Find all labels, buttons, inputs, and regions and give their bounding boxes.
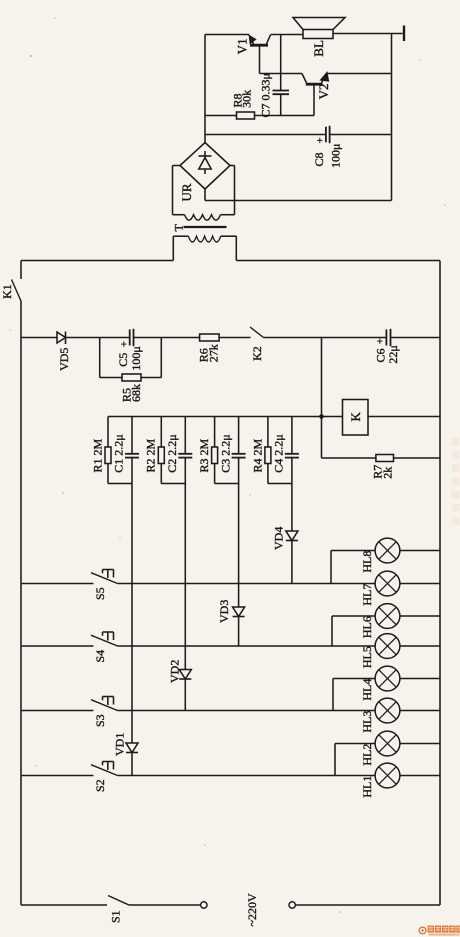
switch S3 contact bar (103, 696, 114, 698)
resistor R6 (200, 334, 220, 341)
wire C1 top lead (131, 417, 133, 454)
wire C4 top lead (291, 417, 293, 454)
wire S4 line to lamp HL5 (118, 645, 376, 647)
svg-text:BL: BL (311, 40, 326, 57)
switch S4 contact stem (107, 632, 109, 641)
lamp HL2 cross 1 (379, 735, 397, 753)
wire primary right down to bus (235, 236, 237, 260)
wire C7 top lead (280, 35, 282, 91)
wire terminal to right bus (295, 904, 440, 906)
wire C5 to R6 (161, 337, 199, 339)
lamp HL7 circle (375, 571, 400, 596)
svg-text:V2: V2 (316, 84, 331, 100)
wire S3 line to lamp HL3 (118, 710, 376, 712)
resistor R8 (237, 112, 255, 119)
svg-text:K2: K2 (250, 346, 264, 361)
capacitor C2 plate bottom (178, 457, 192, 459)
transistor V1 emitter diagonal (249, 35, 254, 44)
lamp HL2 cross 2 (379, 735, 397, 753)
switch K1 blade (12, 280, 22, 302)
svg-text:HL7: HL7 (360, 584, 374, 606)
wire secondary left up to bridge (172, 166, 174, 215)
wire top line to V1 emitter (205, 34, 249, 36)
switch S4 contact tick left (102, 632, 104, 636)
wire left bus to switch S2 (21, 775, 94, 777)
svg-text:HL2: HL2 (360, 744, 374, 766)
wire pair3 takeoff down (238, 484, 240, 608)
transistor V1 base bar (250, 44, 268, 47)
wire relay branch vertical (321, 338, 323, 459)
wire to relay K (322, 416, 343, 418)
wire step to lamp HL4 (333, 678, 375, 680)
svg-text:HL6: HL6 (360, 616, 374, 638)
wire R4 bottom lead (267, 464, 269, 484)
svg-text:R2 2M: R2 2M (144, 438, 158, 472)
wire C6 to right bus (391, 337, 441, 339)
svg-text:UR: UR (179, 183, 194, 201)
capacitor C1 plate bottom (125, 457, 139, 459)
svg-text:HL8: HL8 (360, 551, 374, 573)
lamp HL8 circle (375, 538, 400, 563)
resistor R5 (122, 374, 141, 381)
speaker BL cone (293, 18, 345, 30)
switch S2 blade (91, 765, 118, 776)
wire RC rail (108, 416, 322, 418)
wire S5 line to lamp HL7 (118, 583, 376, 585)
diode VD2 triangle (179, 670, 191, 680)
svg-text:C8: C8 (312, 152, 326, 166)
svg-text:HL5: HL5 (360, 646, 374, 668)
svg-text:R3 2M: R3 2M (197, 438, 211, 472)
relay K box (343, 400, 369, 436)
lamp HL3 cross 2 (379, 702, 397, 720)
switch S1 blade (108, 896, 129, 906)
svg-text:C4 2.2μ: C4 2.2μ (272, 434, 286, 472)
diode VD4 triangle (286, 531, 298, 541)
wire R4C4 bottom bar (268, 483, 292, 485)
wire R5 row right (141, 377, 161, 379)
wire C2 bottom lead (184, 458, 186, 484)
wire C4 bottom lead (291, 458, 293, 484)
wire lamp HL1 to right bus (400, 775, 440, 777)
terminal right (289, 902, 295, 908)
bridge diode lead top (204, 151, 206, 156)
switch S5 contact tick right (113, 570, 115, 578)
diode VD5 cathode bar (65, 332, 67, 345)
lamp HL1 cross 2 (379, 767, 397, 785)
wire lamp HL6 to right bus (400, 615, 440, 617)
wire step to lamp HL6 (332, 615, 375, 617)
capacitor C7 plate bottom (273, 93, 290, 95)
wire top bus left segment (transformer primary to K1) (21, 260, 173, 262)
wire R5 branch left (99, 338, 101, 378)
terminal bar top right (403, 26, 405, 42)
switch S3 contact tick left (102, 697, 104, 701)
diode VD1 cathode bar (126, 752, 138, 754)
switch S3 blade (91, 700, 118, 711)
switch S3 contact stem (107, 697, 109, 706)
wire C8 line left (205, 134, 326, 136)
svg-text:V1: V1 (234, 38, 249, 54)
wire lamp HL4 to right bus (400, 678, 440, 680)
transistor V1 collector diagonal (267, 35, 271, 44)
wire V1 base to V2 collector (260, 73, 303, 75)
wire speaker to terminal bar (333, 33, 403, 35)
resistor R7 (376, 455, 394, 462)
wire bottom left to S1 (21, 904, 107, 906)
wire R3 bottom lead (214, 464, 216, 484)
wire lamp HL5 to right bus (400, 645, 440, 647)
wire secondary right lead (221, 214, 235, 216)
capacitor C8 plate left (325, 127, 327, 143)
watermark bottom right logo (419, 926, 460, 936)
wire C3 top lead (238, 417, 240, 454)
capacitor C8 plate right (329, 126, 331, 143)
diode VD4 cathode bar (286, 540, 298, 542)
svg-text:22μ: 22μ (386, 345, 400, 363)
svg-text:100μ: 100μ (129, 346, 143, 370)
lamp HL3 circle (375, 698, 400, 723)
svg-text:2k: 2k (381, 467, 395, 479)
transformer T primary winding (188, 236, 220, 242)
diode VD2 cathode bar (179, 678, 191, 680)
diode VD5 triangle (57, 332, 66, 343)
switch S5 blade (91, 573, 118, 584)
svg-text:C1 2.2μ: C1 2.2μ (112, 434, 126, 472)
node relay junction (319, 414, 324, 419)
svg-text:27k: 27k (207, 344, 221, 362)
wire VD5 to C5 (66, 337, 100, 339)
svg-text:HL3: HL3 (360, 711, 374, 733)
wire to R7 (322, 457, 376, 459)
transistor V2 base lead (313, 84, 315, 115)
svg-text:VD3: VD3 (217, 600, 231, 623)
wire into C5 (100, 337, 130, 339)
wire R4 top lead (267, 417, 269, 448)
svg-text:R1 2M: R1 2M (90, 438, 104, 472)
svg-text:+: + (315, 137, 327, 143)
svg-text:C3 2.2μ: C3 2.2μ (218, 434, 232, 472)
svg-text:HL4: HL4 (360, 679, 374, 701)
switch S5 contact bar (103, 569, 114, 571)
switch S2 contact stem (107, 762, 109, 771)
wire lamp HL2 to right bus (400, 743, 440, 745)
svg-text:S4: S4 (93, 650, 107, 663)
terminal left (201, 902, 207, 908)
wire step to lamp HL8 (331, 550, 375, 552)
wire left bus to switch S5 (21, 583, 94, 585)
svg-text:30k: 30k (240, 90, 254, 108)
wire left bus (20, 301, 22, 905)
capacitor C7 plate top (273, 90, 290, 92)
wire primary right lead (221, 235, 237, 237)
wire lamp HL7 to right bus (400, 583, 440, 585)
bridge diode lead bottom (204, 169, 206, 174)
wire R2 top lead (160, 417, 162, 448)
wire relay K to right bus (368, 416, 440, 418)
transistor V2 emitter arrow (321, 73, 328, 81)
svg-text:R4 2M: R4 2M (250, 438, 264, 472)
speaker BL box (303, 30, 333, 39)
wire V1 collector to speaker (271, 34, 304, 36)
wire R3 top lead (214, 417, 216, 448)
wire VD2 to S3 line (184, 679, 186, 711)
svg-text:+: + (375, 338, 387, 344)
wire bridge bottom corner down (204, 189, 206, 201)
lamp HL5 cross 2 (379, 637, 397, 655)
switch S2 contact tick left (102, 762, 104, 766)
wire lamp HL3 to right bus (400, 710, 440, 712)
bridge diode triangle (199, 158, 211, 170)
wire secondary right up to bridge (234, 166, 236, 215)
wire bridge left corner lead (173, 165, 181, 167)
resistor R1 (105, 447, 111, 464)
capacitor C6 plate left (385, 330, 387, 346)
wire HL4 step vertical (332, 679, 334, 711)
wire R1 bottom lead (107, 464, 109, 484)
bridge diode cathode bar (199, 155, 212, 157)
lamp HL5 cross 1 (379, 637, 397, 655)
svg-text:HL1: HL1 (360, 776, 374, 798)
wire R7 to right bus (394, 457, 441, 459)
transistor V1 base lead (259, 45, 261, 73)
wire V2 emitter to amp bus (327, 73, 392, 75)
wire bridge right corner lead (230, 165, 235, 167)
svg-text:68k: 68k (129, 384, 143, 402)
wire R2C2 bottom bar (161, 483, 185, 485)
wire C2 top lead (184, 417, 186, 454)
switch S2 contact tick right (113, 762, 115, 770)
wire step to lamp HL2 (335, 743, 375, 745)
wire R5 branch right (160, 338, 162, 378)
wire C8 line right (330, 134, 392, 136)
wire pair1 takeoff down (131, 484, 133, 744)
switch S3 contact tick right (113, 697, 115, 705)
svg-text:C2 2.2μ: C2 2.2μ (165, 434, 179, 472)
capacitor C4 plate bottom (285, 457, 299, 459)
transformer core line (184, 226, 227, 228)
wire right bus (439, 261, 441, 906)
capacitor C3 plate bottom (232, 457, 246, 459)
svg-text:K1: K1 (0, 284, 14, 299)
wire VD4 to S5 line (291, 541, 293, 584)
capacitor C2 plate top (178, 453, 192, 455)
transistor V2 base bar (306, 83, 323, 86)
svg-text:~220V: ~220V (245, 893, 259, 926)
wire secondary left lead (173, 214, 185, 216)
wire left bus to switch S3 (21, 710, 94, 712)
lamp HL2 circle (375, 731, 400, 756)
transistor V1 emitter arrow (250, 36, 256, 43)
wire K2 to C6 (264, 337, 387, 339)
switch S4 blade (91, 635, 118, 646)
svg-text:S5: S5 (93, 587, 107, 600)
svg-text:S3: S3 (93, 714, 107, 727)
lamp HL7 cross 1 (379, 575, 397, 593)
switch S4 contact bar (103, 631, 114, 633)
wire VD1 to S2 line (131, 753, 133, 776)
svg-text:C7 0.33μ: C7 0.33μ (259, 73, 273, 117)
wire C1 bottom lead (131, 458, 133, 484)
svg-text:VD1: VD1 (113, 733, 127, 756)
capacitor C6 plate right (390, 329, 392, 346)
wire C3 bottom lead (238, 458, 240, 484)
wire W1 left (21, 337, 57, 339)
resistor R4 (265, 447, 271, 464)
resistor R3 (212, 447, 218, 464)
wire R5 row left (100, 377, 122, 379)
wire C5 out (134, 337, 162, 339)
lamp HL4 cross 2 (379, 670, 397, 688)
switch S5 contact tick left (102, 570, 104, 574)
svg-text:T: T (172, 224, 186, 232)
lamp HL6 cross 2 (379, 607, 397, 625)
lamp HL6 cross 1 (379, 607, 397, 625)
transistor V2 emitter diagonal (322, 74, 327, 83)
svg-text:100μ: 100μ (329, 144, 343, 168)
capacitor C5 plate right (133, 329, 135, 346)
wire HL6 step vertical (331, 616, 333, 646)
lamp HL5 circle (375, 634, 400, 659)
wire C7 bottom lead (280, 94, 282, 115)
wire R6 to K2 (219, 337, 250, 339)
transistor V2 collector diagonal (302, 74, 307, 83)
lamp HL8 cross 1 (379, 542, 397, 560)
wire R1 top lead (107, 417, 109, 448)
svg-text:K: K (348, 412, 363, 422)
wire amp left vertical (204, 35, 206, 143)
wire primary left down to bus (172, 236, 174, 260)
switch S4 contact tick right (113, 632, 115, 640)
diode VD3 triangle (233, 607, 245, 617)
lamp HL6 circle (375, 604, 400, 629)
wire VD3 to S4 line (238, 617, 240, 647)
wire HL2 step vertical (334, 744, 336, 776)
lamp HL1 cross 1 (379, 767, 397, 785)
capacitor C3 plate top (232, 453, 246, 455)
svg-text:S1: S1 (109, 910, 123, 923)
wire left bus above K1 (20, 261, 22, 280)
wire lamp HL8 to right bus (400, 550, 440, 552)
capacitor C5 plate left (129, 330, 131, 346)
resistor R2 (158, 447, 164, 464)
wire R3C3 bottom bar (215, 483, 239, 485)
wire S2 line to lamp HL1 (118, 775, 376, 777)
diode VD3 cathode bar (233, 616, 245, 618)
wire primary left lead (173, 235, 188, 237)
watermark right edge faint (452, 438, 459, 445)
svg-text:VD5: VD5 (57, 348, 71, 371)
wire R2 bottom lead (160, 464, 162, 484)
svg-text:VD4: VD4 (272, 527, 286, 550)
diode VD1 triangle (126, 743, 138, 753)
lamp HL3 cross 1 (379, 702, 397, 720)
capacitor C1 plate top (125, 453, 139, 455)
lamp HL8 cross 2 (379, 542, 397, 560)
lamp HL4 circle (375, 666, 400, 691)
svg-text:S2: S2 (93, 779, 107, 792)
svg-text:VD2: VD2 (167, 660, 181, 683)
capacitor C4 plate top (285, 453, 299, 455)
switch S5 contact stem (107, 570, 109, 579)
wire top bus right segment (236, 260, 440, 262)
wire pair4 takeoff down (291, 484, 293, 532)
wire HL8 step vertical (330, 551, 332, 584)
wire pair2 takeoff down (184, 484, 186, 670)
wire S1 to terminal (129, 904, 201, 906)
wire R8 row left (205, 115, 237, 117)
switch K2 blade (250, 327, 264, 338)
lamp HL4 cross 1 (379, 670, 397, 688)
transformer T secondary winding (185, 215, 221, 221)
lamp HL1 circle (375, 763, 400, 788)
wire amp right bus (391, 34, 393, 201)
wire left bus to switch S4 (21, 645, 94, 647)
lamp HL7 cross 2 (379, 575, 397, 593)
bridge rectifier UR diamond (180, 143, 230, 190)
wire R8 row right (255, 115, 315, 117)
wire R1C1 bottom bar (108, 483, 132, 485)
switch S2 contact bar (103, 761, 114, 763)
wire DC minus line to amp bus (205, 200, 392, 202)
